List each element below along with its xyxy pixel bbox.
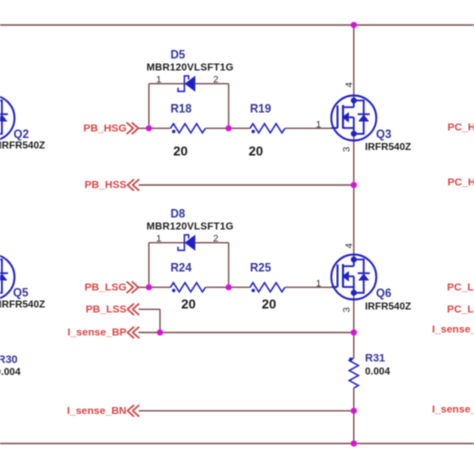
wire D5 loop top right — [195, 83, 228, 85]
svg-text:I_sense_BN: I_sense_BN — [67, 405, 127, 417]
wire D8 loop right vertical — [228, 243, 230, 288]
transistor Q3 — [316, 82, 411, 153]
svg-text:R31: R31 — [365, 353, 385, 365]
wire R18 to R19 — [206, 127, 251, 129]
resistor R25 — [250, 263, 285, 312]
svg-text:D8: D8 — [171, 209, 186, 221]
svg-text:D5: D5 — [171, 50, 186, 62]
resistor R31 — [349, 353, 390, 389]
svg-text:R25: R25 — [250, 263, 272, 275]
junction PB_LSG node — [146, 284, 152, 290]
diode D8 — [147, 209, 234, 251]
svg-text:PC_HSG: PC_HSG — [448, 121, 474, 133]
wire D5 loop left vertical — [148, 84, 150, 129]
resistor R19 — [249, 104, 285, 159]
wire PB_HSG to R18 — [139, 127, 171, 129]
port I_sense_BP — [68, 327, 140, 339]
wire PB_HSS to node — [139, 184, 354, 186]
svg-text:20: 20 — [173, 143, 187, 158]
wire D8 loop left vertical — [148, 243, 150, 288]
svg-text:R30: R30 — [0, 354, 18, 366]
junction PB_HSG node — [146, 125, 152, 131]
svg-text:1: 1 — [316, 278, 321, 289]
port PB_LSS — [86, 303, 140, 315]
svg-text:0.004: 0.004 — [0, 367, 21, 378]
junction top bus / drain — [351, 22, 357, 28]
wire bottom bus — [0, 443, 474, 445]
wire I_sense_BN to node — [139, 410, 354, 412]
wire PB_LSS vertical drop — [159, 309, 161, 332]
svg-text:3: 3 — [342, 147, 353, 152]
svg-text:R18: R18 — [171, 104, 193, 116]
svg-text:PB_LSS: PB_LSS — [86, 303, 127, 315]
svg-text:R24: R24 — [171, 263, 193, 275]
svg-text:0.004: 0.004 — [365, 367, 390, 378]
junction I_sense_BN — [351, 408, 357, 414]
wire D5 loop right vertical — [228, 84, 230, 129]
wire I_sense_BP to node — [139, 332, 354, 334]
junction PB_LSS / I_sense_BP — [157, 329, 163, 335]
wire D8 loop top left — [149, 242, 184, 244]
svg-text:I_sense_CP: I_sense_CP — [432, 324, 474, 336]
svg-text:MBR120VLSFT1G: MBR120VLSFT1G — [147, 222, 234, 233]
wire vertical Q3 source to Q6 drain — [353, 134, 355, 260]
wire top bus — [0, 24, 474, 26]
svg-text:IRFR540Z: IRFR540Z — [0, 141, 45, 152]
svg-text:20: 20 — [181, 297, 195, 312]
junction R24/R25/D8 node — [226, 284, 232, 290]
port PB_LSG — [84, 281, 138, 293]
svg-text:IRFR540Z: IRFR540Z — [0, 300, 45, 311]
svg-text:PB_HSG: PB_HSG — [83, 122, 126, 134]
wire PB_LSG to R24 — [139, 286, 171, 288]
svg-text:Q3: Q3 — [376, 129, 391, 141]
resistor R18 — [171, 104, 206, 159]
junction I_sense_BP / R31 — [351, 329, 357, 335]
svg-text:I_sense_BP: I_sense_BP — [68, 327, 127, 339]
svg-text:MBR120VLSFT1G: MBR120VLSFT1G — [147, 63, 234, 74]
svg-text:I_sense_CN: I_sense_CN — [432, 404, 474, 416]
svg-text:4: 4 — [344, 243, 355, 248]
wire R24 to R25 — [206, 286, 251, 288]
diode D5 — [147, 50, 234, 92]
svg-text:1: 1 — [156, 233, 161, 244]
port I_sense_BN — [67, 405, 139, 417]
transistor Q6 — [316, 243, 411, 312]
wire vertical drain Q3 — [353, 25, 355, 101]
svg-text:PC_LSG: PC_LSG — [447, 281, 474, 293]
port PB_HSG — [83, 122, 138, 134]
svg-text:PB_HSS: PB_HSS — [84, 179, 126, 191]
wire D8 loop top right — [195, 242, 228, 244]
port PB_HSS — [84, 179, 139, 191]
svg-text:3: 3 — [342, 307, 353, 312]
wire PB_LSS horizontal — [139, 308, 161, 310]
svg-text:2: 2 — [213, 233, 218, 244]
svg-text:20: 20 — [262, 297, 276, 312]
wire vertical Q6 source to R31 — [353, 293, 355, 358]
wire D5 loop top left — [149, 83, 184, 85]
svg-text:Q6: Q6 — [376, 288, 391, 300]
svg-text:1: 1 — [316, 119, 321, 130]
svg-text:2: 2 — [213, 74, 218, 85]
junction PB_HSS node — [351, 182, 357, 188]
resistor R24 — [171, 263, 206, 312]
svg-text:1: 1 — [156, 74, 161, 85]
junction R18/R19/D5 node — [226, 125, 232, 131]
svg-text:PC_HSS: PC_HSS — [448, 176, 474, 188]
transistor Q2 — [0, 96, 45, 152]
wire R25 to Q6 gate — [285, 286, 332, 288]
transistor Q5 — [0, 255, 45, 311]
svg-text:IRFR540Z: IRFR540Z — [365, 302, 411, 313]
junction bottom bus — [351, 440, 357, 446]
wire R19 to Q3 gate — [285, 127, 332, 129]
svg-text:20: 20 — [249, 143, 263, 158]
svg-text:IRFR540Z: IRFR540Z — [365, 142, 411, 153]
svg-text:4: 4 — [344, 82, 355, 87]
svg-text:PB_LSG: PB_LSG — [84, 281, 126, 293]
svg-text:PC_LSS: PC_LSS — [447, 304, 474, 316]
svg-text:R19: R19 — [250, 104, 271, 116]
svg-text:Q5: Q5 — [13, 288, 29, 300]
wire vertical R31 to bottom bus — [353, 388, 355, 444]
svg-text:Q2: Q2 — [14, 129, 29, 141]
resistor R30 labels (component off-canvas left) — [0, 354, 21, 378]
